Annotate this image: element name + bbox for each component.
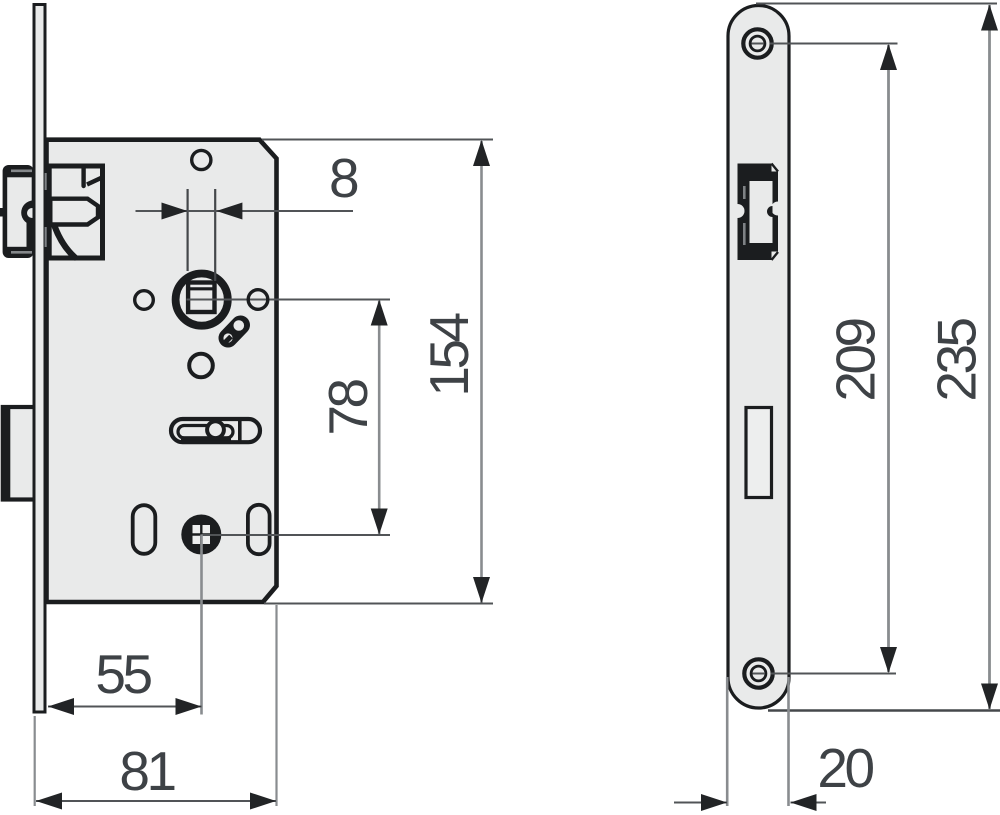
svg-text:81: 81: [119, 740, 174, 802]
lock case body: [47, 140, 277, 602]
deadbolt left face band: [3, 407, 11, 500]
ext plate top: [756, 3, 997, 5]
lever slot capsule: [171, 419, 260, 442]
latch center nub: [0, 208, 4, 217]
deadbolt: [3, 407, 36, 500]
bottom screw hole: [744, 659, 772, 687]
dim 20 line left: [674, 802, 727, 804]
latch tail connector: [44, 197, 53, 227]
top screw hole: [743, 29, 771, 57]
ext screw bottom: [753, 673, 766, 675]
dim 78 arrows: [371, 300, 388, 326]
gray slits on plate: [45, 173, 48, 190]
spindle square inner bar: [188, 287, 215, 290]
dim 209 line: [887, 45, 890, 672]
faceplate (edge view): [34, 5, 45, 713]
lever divider: [238, 421, 242, 442]
follower notch vertical: [81, 168, 85, 186]
ext screw top: [752, 43, 765, 45]
follower notch diagonal: [87, 178, 102, 185]
svg-text:55: 55: [95, 643, 151, 705]
top hole: [192, 150, 211, 169]
svg-text:78: 78: [317, 380, 379, 436]
stop pin capsule: [228, 325, 241, 338]
left small hole: [135, 291, 154, 310]
dim 81 line: [36, 800, 276, 802]
dim 154 extension lines: [262, 139, 493, 141]
dim 8 extension lines: [187, 189, 189, 271]
spindle hub U: [176, 274, 228, 326]
dim 20 arrows: [701, 794, 727, 811]
WC follower hub: [181, 515, 221, 555]
dim 20 line right: [791, 802, 827, 804]
latch bolt head: [3, 165, 34, 258]
svg-text:8: 8: [329, 147, 358, 209]
dim 81 extension lines: [34, 716, 36, 806]
dim 209 arrows: [880, 44, 897, 70]
lever circle: [207, 421, 224, 438]
follower box: [49, 166, 102, 258]
left oval slot: [133, 505, 156, 554]
right small hole: [248, 290, 268, 310]
dim 20 extension lines: [726, 677, 729, 806]
dim 154 line: [480, 141, 483, 603]
svg-text:209: 209: [825, 319, 887, 401]
dim 8 arrows: [162, 203, 188, 220]
dim 154 arrows: [473, 140, 490, 166]
dim 78 line: [378, 300, 381, 534]
lever inner slot: [178, 426, 233, 439]
wire 55 ext right (vertical): [200, 535, 203, 715]
right oval slot: [248, 505, 270, 554]
ext plate bottom: [768, 709, 1000, 711]
WC cross: [200, 524, 202, 546]
dim 55 arrows: [48, 698, 74, 715]
dim 55 line: [48, 706, 202, 708]
spindle square hole: [188, 283, 214, 313]
svg-text:154: 154: [418, 313, 480, 396]
dim 235 arrows: [981, 5, 998, 31]
latch tail: [51, 199, 98, 225]
node hub center line (78 ext top): [187, 299, 391, 301]
dim 8 line: [136, 210, 354, 212]
lower hole: [189, 354, 213, 378]
spring curve: [55, 226, 76, 258]
latch bevel arc: [21, 200, 46, 225]
dim 235 line: [988, 5, 991, 709]
deadbolt cutout: [746, 408, 772, 498]
wire 78 ext bottom: [201, 534, 390, 536]
latch cutout: [731, 164, 786, 261]
faceplate front view: [728, 6, 789, 709]
svg-text:20: 20: [817, 737, 873, 799]
dim 81 arrows: [36, 793, 62, 810]
svg-text:235: 235: [926, 318, 988, 401]
lever slot bottom edge: [181, 436, 231, 441]
